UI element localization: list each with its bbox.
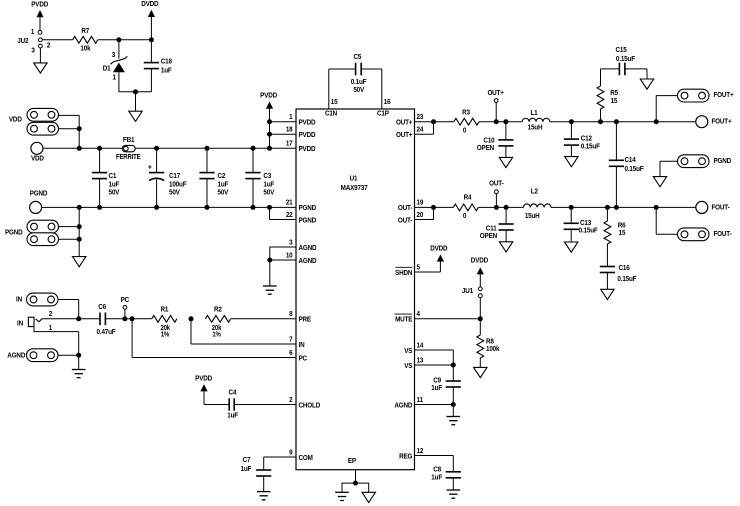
svg-text:OUT-: OUT- (398, 205, 412, 213)
capacitor C14 (609, 122, 644, 208)
svg-text:IN: IN (16, 296, 22, 304)
svg-text:1%: 1% (161, 331, 170, 339)
pin 6 PC (left) (289, 349, 307, 362)
svg-text:15: 15 (331, 99, 338, 107)
svg-text:C1N: C1N (325, 110, 337, 118)
svg-text:1: 1 (31, 29, 35, 37)
node junction (251, 205, 256, 210)
svg-text:19: 19 (417, 199, 424, 207)
wire C1P stub (381, 69, 383, 109)
svg-text:C2: C2 (218, 173, 226, 181)
svg-text:15uH: 15uH (525, 213, 540, 221)
svg-text:+: + (148, 162, 153, 172)
svg-text:15uH: 15uH (528, 124, 543, 132)
wire OUT- pin19 (415, 206, 454, 208)
pin 11 AGND (right) (394, 396, 423, 409)
resistor R7 (73, 27, 98, 52)
wire to FOUT- pad (656, 207, 677, 234)
svg-text:22: 22 (286, 211, 293, 219)
svg-text:3: 3 (289, 239, 293, 247)
jumper JU2 pin 3 (31, 44, 42, 54)
svg-text:AGND: AGND (394, 402, 412, 410)
svg-text:PC: PC (121, 296, 130, 304)
ground (EP) (362, 492, 375, 502)
wire L1 to FOUT+ (550, 121, 697, 123)
node junction (77, 205, 82, 210)
wire pad A to bus (59, 115, 80, 148)
node junction (IN pin tap) (189, 316, 194, 321)
node junction (FOUT- pad tap) (654, 205, 659, 210)
pin 14 VS (right) (404, 342, 423, 355)
svg-text:JU1: JU1 (462, 287, 473, 295)
svg-text:8: 8 (289, 311, 293, 319)
pin 7 IN (left) (289, 336, 305, 349)
svg-text:COM: COM (299, 454, 314, 462)
svg-text:PVDD: PVDD (195, 375, 212, 383)
node junction (C2) (205, 146, 210, 151)
svg-text:17: 17 (286, 140, 293, 148)
node junction (77, 237, 82, 242)
wire C5 left (329, 68, 356, 70)
node junction (C18 top) (149, 37, 154, 42)
svg-text:OUT-: OUT- (398, 217, 412, 225)
svg-text:R8: R8 (486, 338, 494, 346)
ground (C10) (499, 157, 512, 167)
svg-text:OPEN: OPEN (477, 145, 494, 153)
node junction (bottom) (133, 89, 138, 94)
ground (C13) (565, 242, 578, 252)
wire L2 to FOUT- (551, 206, 697, 208)
testpoint OUT+ (487, 89, 503, 121)
wire R3 to L1 (479, 121, 522, 123)
connector PGND pad B (27, 233, 59, 246)
svg-text:R7: R7 (81, 27, 89, 35)
svg-text:0.47uF: 0.47uF (97, 329, 116, 337)
jumper JU1 (462, 287, 482, 319)
wire IN pad down (58, 300, 79, 319)
node junction (pin1) (267, 119, 272, 124)
wire VS pin13 stub (415, 364, 454, 366)
svg-text:C8: C8 (433, 466, 441, 474)
node junction (205, 205, 210, 210)
wire pin24 stub (415, 122, 434, 135)
wire D1/C18 bottom (119, 91, 151, 93)
testpoint FOUT+ (696, 116, 732, 128)
svg-text:PGND: PGND (5, 229, 23, 237)
svg-text:CHOLD: CHOLD (299, 402, 321, 410)
node junction (C17) (154, 146, 159, 151)
svg-text:2: 2 (289, 396, 293, 404)
ground (JU2) (34, 63, 47, 73)
earth ground (C8) (447, 490, 461, 498)
svg-text:13: 13 (417, 357, 424, 365)
svg-text:L2: L2 (531, 188, 538, 196)
svg-text:FB1: FB1 (123, 137, 135, 145)
inductor L2 (523, 188, 551, 220)
ground (C12) (565, 157, 578, 167)
testpoint FOUT- (696, 201, 730, 213)
svg-text:DVDD: DVDD (471, 257, 488, 265)
wire to ground (135, 92, 137, 111)
wire pad B to bus (59, 128, 80, 130)
svg-text:PVDD: PVDD (299, 132, 316, 140)
capacitor C18 (144, 40, 172, 92)
svg-text:0.15uF: 0.15uF (581, 143, 600, 151)
svg-text:1uF: 1uF (218, 181, 229, 189)
wire pin22 stub (270, 207, 297, 219)
svg-text:PRE: PRE (299, 316, 312, 324)
capacitor C11 (480, 207, 514, 241)
wire C15 left (601, 68, 620, 70)
node junction (C12) (569, 119, 574, 124)
node junction (IN) (76, 316, 81, 321)
svg-text:AGND: AGND (299, 244, 317, 252)
connector IN pad (16, 293, 58, 306)
svg-text:C6: C6 (98, 303, 106, 311)
testpoint PC (121, 296, 130, 318)
wire pin20 stub (415, 207, 434, 219)
svg-text:1uF: 1uF (227, 412, 238, 420)
pin 9 COM (left) (289, 449, 313, 462)
capacitor C12 (564, 122, 600, 157)
pin 8 PRE (left) (289, 311, 311, 324)
wire PGND pad to ground (660, 161, 678, 176)
pin 24 OUT+ (right) (396, 126, 424, 139)
pin 22 PGND (left) (286, 211, 316, 224)
wire R7 to DVDD node (98, 39, 152, 41)
svg-text:JU2: JU2 (17, 37, 28, 45)
svg-text:PVDD: PVDD (299, 119, 316, 127)
wire C1N stub (328, 69, 330, 109)
connector AGND pad (7, 349, 58, 362)
svg-text:2: 2 (47, 42, 51, 50)
wire AGND pin3/10 (270, 247, 296, 286)
earth ground (EP) (335, 492, 349, 500)
wire VDD rail (43, 147, 297, 149)
svg-text:2: 2 (49, 311, 53, 319)
testpoint PGND (30, 190, 48, 213)
wire C6 to R1 (105, 318, 151, 320)
pin 3 AGND (left) (289, 239, 316, 252)
svg-text:PC: PC (299, 355, 308, 363)
svg-text:PVDD: PVDD (31, 1, 48, 9)
capacitor C7 (240, 456, 271, 491)
svg-text:IN: IN (17, 320, 23, 328)
pin 23 OUT+ (right) (396, 114, 424, 127)
svg-text:VDD: VDD (31, 155, 44, 163)
connector FOUT- pad (678, 228, 732, 241)
capacitor C3 (245, 148, 274, 207)
node junction (OUT- tap) (494, 205, 499, 210)
ferrite bead FB1 (116, 137, 141, 161)
svg-text:18: 18 (286, 126, 293, 134)
svg-text:1: 1 (113, 74, 117, 82)
ground (R8) (474, 367, 487, 377)
svg-text:FOUT-: FOUT- (712, 204, 730, 212)
wire AGND pin11 stub (415, 404, 454, 406)
svg-text:4: 4 (417, 311, 421, 319)
node junction (pin20) (431, 205, 436, 210)
svg-text:IN: IN (299, 341, 305, 349)
svg-text:OUT+: OUT+ (396, 119, 412, 127)
capacitor C16 (600, 265, 637, 289)
resistor R5 (597, 69, 618, 122)
node junction (C10 tap) (503, 119, 508, 124)
svg-text:0.15uF: 0.15uF (616, 56, 635, 64)
svg-text:15: 15 (619, 230, 626, 238)
connector FOUT+ pad (678, 89, 734, 102)
svg-text:C4: C4 (228, 389, 236, 397)
wire VS pin14 stub (415, 350, 454, 381)
node junction (C13) (569, 205, 574, 210)
node junction (R6) (605, 205, 610, 210)
svg-text:R5: R5 (610, 90, 618, 98)
wire JU2-3 to ground (39, 48, 41, 63)
pin 13 VS (right) (404, 357, 423, 370)
svg-text:SHDN: SHDN (395, 269, 412, 277)
wire to PC pin (132, 319, 296, 358)
ground (PGND pads) (73, 257, 86, 267)
svg-text:0: 0 (463, 212, 467, 220)
pin 20 OUT- (right) (398, 211, 424, 224)
earth ground (input) (72, 370, 86, 378)
svg-text:PGND: PGND (714, 157, 732, 165)
svg-text:9: 9 (289, 449, 293, 457)
node junction (AGND in) (76, 353, 81, 358)
node junction (97, 205, 102, 210)
svg-text:10: 10 (286, 252, 293, 260)
node junction (AGND) (267, 258, 272, 263)
svg-text:OUT+: OUT+ (396, 132, 412, 140)
svg-text:21: 21 (286, 199, 293, 207)
power flag DVDD (JU1) (471, 257, 488, 287)
svg-text:50V: 50V (109, 189, 120, 197)
pin 12 REG (right) (399, 447, 423, 460)
svg-text:C7: C7 (243, 456, 251, 464)
pin 21 PGND (left) (286, 199, 316, 212)
wire COM pin to C7 (264, 457, 296, 470)
svg-text:DVDD: DVDD (141, 1, 158, 9)
capacitor C5 (351, 54, 367, 94)
svg-text:PGND: PGND (30, 190, 48, 198)
svg-text:MAX9737: MAX9737 (341, 185, 368, 193)
svg-text:FERRITE: FERRITE (116, 154, 141, 162)
node junction (VS) (451, 363, 456, 368)
svg-text:23: 23 (417, 114, 424, 122)
svg-text:16: 16 (384, 99, 391, 107)
wire pin1 stub (270, 121, 297, 123)
svg-text:R2: R2 (214, 306, 222, 314)
capacitor C13 (564, 207, 598, 242)
svg-text:PVDD: PVDD (260, 92, 277, 100)
svg-text:C18: C18 (161, 58, 172, 66)
svg-text:D1: D1 (103, 65, 111, 73)
node junction (FOUT+ pad tap) (654, 119, 659, 124)
node junction (154, 205, 159, 210)
wire REG stub (415, 456, 454, 472)
svg-text:REG: REG (399, 453, 412, 461)
pin 2 CHOLD (left) (289, 396, 320, 409)
power flag PVDD (C4) (195, 375, 212, 404)
ground (C11) (499, 242, 512, 252)
node junction (VDD bus) (77, 146, 82, 151)
svg-text:C5: C5 (353, 54, 361, 62)
capacitor C15 (615, 46, 634, 75)
node junction (PVDD tap) (267, 146, 272, 151)
wire EP to grounds (342, 470, 369, 493)
power flag PVDD (top left) (31, 1, 48, 30)
svg-text:VS: VS (404, 347, 413, 355)
svg-text:1%: 1% (212, 331, 221, 339)
svg-text:100k: 100k (486, 346, 500, 354)
node junction (pin18) (267, 132, 272, 137)
svg-text:6: 6 (289, 349, 293, 357)
svg-text:1uF: 1uF (431, 385, 442, 393)
svg-text:C12: C12 (581, 135, 592, 143)
svg-text:OUT+: OUT+ (487, 89, 503, 97)
node junction (D1 top) (116, 37, 121, 42)
svg-text:1uF: 1uF (109, 181, 120, 189)
wire to C4 (204, 404, 229, 406)
node junction (MUTE) (478, 316, 483, 321)
node junction (R5) (598, 119, 603, 124)
ground (D1/C18) (129, 111, 142, 121)
svg-text:24: 24 (417, 126, 424, 134)
audio jack IN (17, 311, 52, 333)
svg-text:15: 15 (611, 98, 618, 106)
node junction (PC branch) (130, 316, 135, 321)
svg-text:DVDD: DVDD (430, 245, 447, 253)
inductor L1 (522, 109, 550, 131)
svg-text:FOUT-: FOUT- (714, 231, 732, 239)
svg-text:R4: R4 (464, 194, 472, 202)
svg-text:R3: R3 (462, 109, 470, 117)
pin 18 PVDD (left) (286, 126, 316, 139)
wire pads to ground bus (59, 207, 80, 256)
svg-text:OPEN: OPEN (480, 233, 497, 241)
svg-text:VDD: VDD (9, 116, 22, 124)
power flag DVDD (SHDN) (430, 245, 447, 272)
svg-text:C9: C9 (433, 377, 441, 385)
node junction (EP) (353, 481, 358, 486)
svg-text:0: 0 (463, 127, 467, 135)
wire pin18 stub (270, 133, 297, 135)
node junction (C14 top) (614, 119, 619, 124)
svg-text:C3: C3 (263, 173, 271, 181)
svg-text:1uF: 1uF (240, 466, 251, 474)
node junction (pin22 tap) (267, 205, 272, 210)
svg-text:PVDD: PVDD (299, 146, 316, 154)
capacitor C1 (92, 148, 120, 207)
resistor R6 (604, 207, 626, 266)
svg-text:7: 7 (289, 336, 293, 344)
jumper JU2 pin 2 (39, 38, 51, 50)
svg-text:C17: C17 (169, 173, 180, 181)
node junction (AGND 11) (451, 402, 456, 407)
pin 1 PVDD (left) (289, 114, 315, 127)
svg-text:50V: 50V (353, 87, 364, 95)
svg-text:0.1uF: 0.1uF (351, 79, 367, 87)
pin 16 C1P (top) (377, 99, 391, 118)
wire JU2-2 to R7 (42, 39, 72, 41)
wire AGND pad (58, 354, 79, 356)
node junction (77, 126, 82, 131)
pin 10 AGND (left) (286, 252, 317, 265)
resistor R2 (205, 306, 230, 338)
svg-text:0.15uF: 0.15uF (625, 166, 644, 174)
connector VDD pad B (27, 122, 59, 135)
svg-text:AGND: AGND (7, 352, 25, 360)
svg-text:C14: C14 (625, 157, 636, 165)
node junction (C11 tap) (504, 205, 509, 210)
wire R4 to L2 (478, 206, 523, 208)
svg-text:100uF: 100uF (169, 181, 186, 189)
capacitor C4 (227, 389, 238, 419)
node junction (77, 224, 82, 229)
svg-text:C16: C16 (619, 265, 630, 273)
wire to earth (452, 405, 454, 417)
wire PGND rail (41, 206, 296, 208)
wire MUTE stub (415, 318, 481, 320)
svg-text:C11: C11 (486, 225, 497, 233)
capacitor C8 (431, 466, 461, 490)
svg-text:1uF: 1uF (161, 67, 172, 75)
testpoint OUT- (489, 180, 503, 207)
pin 4 MUTE (right) (395, 311, 421, 324)
wire C4 to CHOLD pin (234, 404, 296, 406)
resistor R8 (477, 319, 500, 368)
wire to FOUT+ pad (656, 96, 677, 122)
node junction (C14 bottom) (614, 205, 619, 210)
connector PGND pad (right) (678, 155, 732, 168)
connector PGND pad A (5, 220, 59, 237)
svg-text:12: 12 (417, 447, 424, 455)
wire jack sleeve (34, 327, 79, 370)
ground (C16) (601, 289, 614, 299)
svg-text:3: 3 (112, 52, 116, 60)
svg-text:1: 1 (289, 114, 293, 122)
connector VDD pad A (9, 108, 59, 123)
wire OUT+ pin23 (415, 121, 454, 123)
svg-text:MUTE: MUTE (395, 316, 413, 324)
svg-text:C13: C13 (580, 219, 591, 227)
resistor R1 (152, 306, 177, 338)
svg-text:C1P: C1P (377, 110, 389, 118)
pin EP (bottom) (348, 458, 357, 466)
wire C5 right (361, 68, 382, 70)
svg-text:FOUT+: FOUT+ (712, 118, 732, 126)
svg-text:0.15uF: 0.15uF (617, 276, 636, 284)
svg-text:PGND: PGND (299, 217, 317, 225)
jumper JU2 pin 1 (31, 29, 42, 37)
node junction (pin24) (431, 119, 436, 124)
node junction (OUT+ tap) (494, 119, 499, 124)
wire to IN pin (191, 319, 296, 344)
svg-text:0.15uF: 0.15uF (579, 227, 598, 235)
wire jack tip to C6 (42, 318, 100, 320)
wire to D1 (118, 40, 120, 59)
svg-text:PGND: PGND (299, 205, 317, 213)
svg-text:20: 20 (417, 211, 424, 219)
svg-text:C1: C1 (109, 173, 117, 181)
capacitor C6 (97, 303, 116, 336)
svg-text:3: 3 (31, 47, 35, 55)
wire R2 to PRE pin (231, 318, 296, 320)
wire SHDN stub (415, 271, 441, 273)
capacitor C9 (431, 377, 461, 404)
svg-text:FOUT+: FOUT+ (714, 92, 734, 100)
ground (PGND right) (653, 177, 666, 187)
